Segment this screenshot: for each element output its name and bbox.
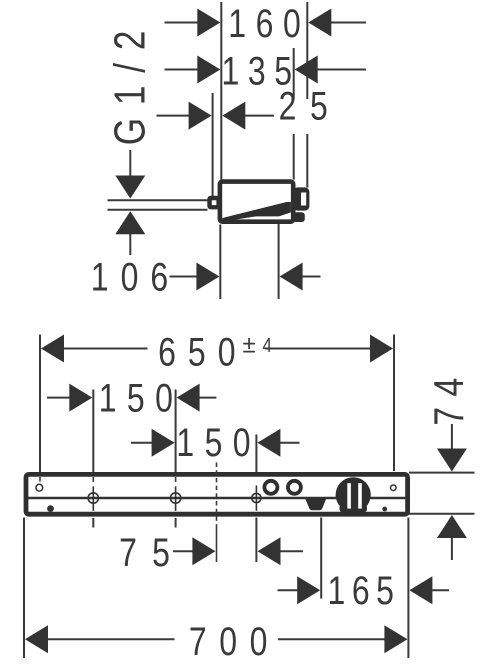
svg-text:165: 165 [327,568,400,613]
svg-text:160: 160 [228,0,310,45]
svg-text:150: 150 [176,420,261,465]
svg-text:74: 74 [426,367,472,425]
svg-text:650: 650 [158,329,247,374]
svg-text:150: 150 [99,375,184,420]
svg-text:106: 106 [91,254,180,299]
svg-text:G1/2: G1/2 [106,18,155,145]
svg-text:4: 4 [263,334,272,357]
svg-text:25: 25 [279,83,342,128]
svg-text:±: ± [243,332,256,359]
svg-text:75: 75 [119,530,185,575]
svg-text:700: 700 [189,619,280,664]
